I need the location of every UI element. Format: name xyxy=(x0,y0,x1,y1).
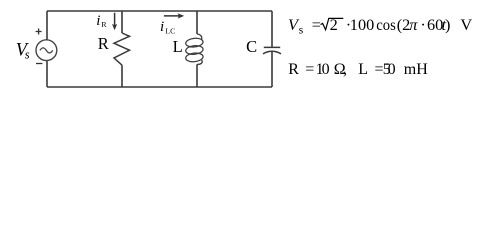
svg-text:R: R xyxy=(288,61,299,78)
svg-text:0: 0 xyxy=(388,61,396,78)
inductor L exit hook xyxy=(197,60,202,65)
wire top rail xyxy=(47,10,272,12)
wire R branch lower xyxy=(121,65,123,87)
svg-text:): ) xyxy=(445,15,450,34)
svg-text:0: 0 xyxy=(322,61,330,78)
wire C branch lower xyxy=(271,52,273,87)
svg-text:i: i xyxy=(96,13,100,29)
wire L branch lower xyxy=(196,64,198,87)
svg-text:L: L xyxy=(358,61,368,78)
resistor R zigzag xyxy=(114,33,130,65)
source plus sign xyxy=(36,29,42,35)
svg-text:L: L xyxy=(173,37,183,56)
radical sign xyxy=(321,18,344,29)
inductor L loop 1 xyxy=(185,37,203,47)
current iR arrow xyxy=(114,13,116,26)
svg-text:C: C xyxy=(246,37,257,56)
wire L branch upper xyxy=(196,11,198,34)
svg-text:cos: cos xyxy=(376,15,396,34)
svg-text:R: R xyxy=(98,34,109,53)
svg-text:=: = xyxy=(312,15,321,34)
source Vs circle xyxy=(36,40,57,61)
source Vs sine wave xyxy=(40,48,53,53)
svg-text:LC: LC xyxy=(165,26,175,35)
inductor L loop 3 xyxy=(185,52,203,62)
svg-text:π: π xyxy=(409,15,418,34)
current iLC arrow xyxy=(164,15,180,17)
wire left branch upper xyxy=(46,11,48,40)
wire left branch lower xyxy=(46,61,48,88)
svg-text:V: V xyxy=(460,15,472,34)
svg-text:·: · xyxy=(420,15,425,34)
svg-text:(2: (2 xyxy=(397,15,411,34)
source minus sign xyxy=(36,63,42,65)
wire R branch upper xyxy=(121,11,123,33)
svg-text:s: s xyxy=(299,24,304,36)
capacitor C top plate xyxy=(264,46,280,48)
svg-text:100: 100 xyxy=(350,15,374,34)
svg-text:,: , xyxy=(343,61,347,78)
svg-text:s: s xyxy=(25,47,30,61)
svg-text:mH: mH xyxy=(404,61,428,78)
svg-text:R: R xyxy=(101,20,107,29)
capacitor C curved plate xyxy=(263,51,281,54)
wire bottom rail xyxy=(47,86,272,88)
svg-text:2: 2 xyxy=(330,15,338,34)
svg-text:i: i xyxy=(160,19,164,35)
inductor L loop 2 xyxy=(185,45,203,55)
wire C branch upper xyxy=(271,11,273,47)
svg-text:=: = xyxy=(305,61,314,78)
inductor L entry hook xyxy=(197,34,202,40)
